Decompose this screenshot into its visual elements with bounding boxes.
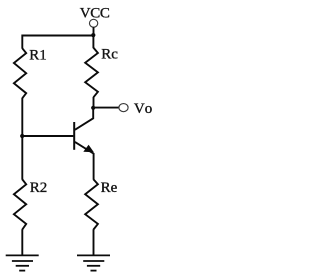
svg-text:Rc: Rc [101, 47, 118, 63]
wire Rc to collector node [93, 97, 95, 108]
transistor Q1 emitter lead [75, 142, 94, 180]
ground under Re [77, 255, 110, 270]
node VCC junction [91, 33, 95, 37]
node collector junction [91, 106, 95, 110]
wire base [22, 135, 73, 137]
wire VCC stub [93, 27, 95, 35]
transistor Q1 emitter arrow [83, 145, 94, 153]
wire left column [21, 98, 23, 180]
resistor R1 [14, 48, 26, 98]
terminal Vo circle [119, 104, 128, 112]
wire top rail [22, 36, 93, 49]
wire R2 to ground [21, 229, 23, 255]
ground under R2 [6, 255, 39, 270]
wire Re to ground [93, 229, 95, 255]
resistor Re [85, 179, 98, 229]
resistor R2 [14, 179, 26, 229]
transistor Q1 collector lead [75, 108, 93, 130]
svg-text:Vo: Vo [134, 101, 152, 117]
resistor Rc [85, 48, 98, 97]
terminal VCC circle [89, 19, 97, 27]
wire output [93, 107, 119, 109]
svg-text:Re: Re [101, 180, 118, 196]
transistor Q1 base bar [73, 122, 75, 150]
svg-text:R1: R1 [29, 47, 47, 63]
node base junction [20, 134, 24, 138]
svg-text:R2: R2 [30, 180, 48, 196]
